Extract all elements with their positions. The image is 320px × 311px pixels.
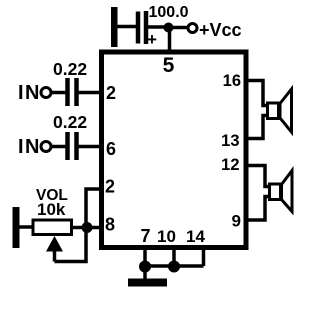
wire node A to pin 5 [168,27,172,52]
svg-text:14: 14 [186,227,205,246]
svg-text:9: 9 [232,212,241,231]
ground (bottom bar) [128,279,167,287]
wire pin 16 to speaker SP1 [246,81,268,106]
wire node C to ground [143,266,147,280]
wire C2 to pin 2 [78,91,101,95]
wire pin 7 down [143,247,147,266]
svg-text:+Vcc: +Vcc [199,20,242,40]
+Vcc terminal circle [188,24,197,33]
wire wiper loop to node B [55,228,87,262]
wire pin 10 down [172,247,176,266]
node B junction dot [82,222,93,233]
svg-text:0.22: 0.22 [53,112,87,132]
capacitor C2 plate 2 [74,78,79,106]
svg-text:5: 5 [163,54,175,77]
svg-text:7: 7 [140,226,150,246]
svg-text:16: 16 [223,72,241,90]
capacitor C1 100.0 plate 2 [144,11,149,44]
wire bottom bus [145,264,204,268]
capacitor C2 plate 1 [65,78,70,106]
svg-text:8: 8 [105,215,115,235]
potentiometer R1 wiper arrow [46,236,63,252]
svg-text:10k: 10k [37,200,66,219]
svg-text:0.22: 0.22 [53,59,87,79]
wire pin 13 to speaker SP1 [246,116,268,139]
svg-text:12: 12 [221,156,239,174]
speaker SP1 box [268,103,279,119]
wire ground to C1 [115,25,137,29]
node A junction dot [164,23,174,33]
svg-text:100.0: 100.0 [149,4,189,21]
svg-text:+: + [147,30,157,49]
IN input 1 terminal circle [41,88,51,98]
capacitor C1 100.0 plate 1 [136,12,141,44]
node D junction dot (pin 10) [168,261,180,273]
capacitor C3 plate 1 [65,132,70,160]
wire node A to +Vcc terminal [168,26,188,30]
ground (top-left bar) [111,7,118,47]
svg-text:IN: IN [18,136,41,158]
wire C1 to node A [147,25,168,29]
svg-text:6: 6 [106,139,116,159]
potentiometer R1 wiper stem [53,248,57,262]
IN input 2 terminal circle [41,142,51,152]
svg-text:13: 13 [221,132,239,150]
IC U1 body [102,52,247,248]
wire pin 9 to speaker SP2 [246,197,270,221]
wire C3 to pin 6 [78,145,101,149]
wire input 2 to C3 [51,145,66,149]
speaker SP2 cone [282,171,293,212]
speaker SP1 cone [280,89,292,132]
wire input 1 to C2 [51,91,66,95]
wire pin 14 down [202,247,206,266]
capacitor C3 plate 2 [74,132,79,160]
wire R1 right terminal to node B [72,226,87,230]
wire pin 12 to speaker SP2 [246,166,270,187]
speaker SP2 box [270,184,281,200]
svg-text:2: 2 [106,83,116,103]
svg-text:2: 2 [105,177,115,197]
svg-text:10: 10 [157,227,176,246]
node C junction dot (pin 7) [139,261,151,273]
wire pin 2 (lower) to node B [86,189,101,224]
wire ground to potentiometer R1 [18,225,33,229]
potentiometer R1 body [33,220,72,235]
svg-text:IN: IN [18,82,41,104]
wire node B to pin 8 [87,226,101,230]
ground (left bar at potentiometer) [13,207,20,248]
